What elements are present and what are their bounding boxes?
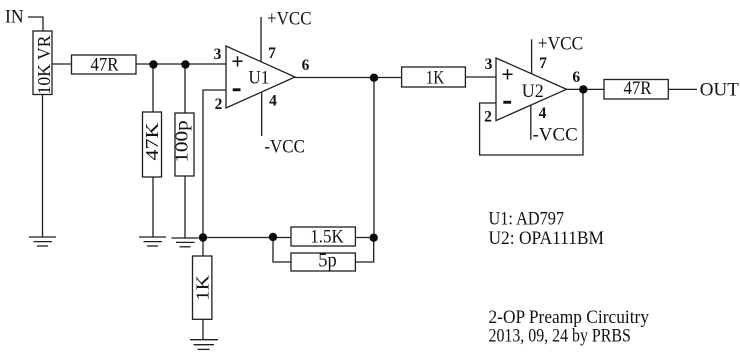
svg-text:1.5K: 1.5K	[310, 227, 344, 248]
op-amp U2 triangle	[496, 58, 567, 121]
svg-text:-VCC: -VCC	[533, 124, 578, 145]
wire IN to 10K VR	[28, 17, 43, 31]
svg-text:47K: 47K	[142, 123, 162, 161]
capacitor 5p body	[291, 253, 355, 271]
wire 47R to OUT	[668, 88, 697, 90]
node: 47K junction	[149, 60, 157, 68]
wire VR bottom to ground	[42, 95, 44, 238]
node: feedback right junction	[370, 234, 378, 242]
wire 1K shunt to ground	[202, 319, 204, 339]
ground (input)	[29, 237, 56, 246]
wire feedback node to 1.5K	[203, 237, 291, 239]
svg-text:47R: 47R	[91, 55, 119, 76]
minus marker U1	[233, 88, 241, 91]
node: shunt junction	[199, 233, 207, 241]
wire 1.5K right to node	[355, 237, 374, 239]
ground (1K shunt)	[190, 340, 218, 350]
wire -VCC U2	[530, 105, 532, 140]
wire 100p lead down	[184, 64, 186, 113]
svg-text:-VCC: -VCC	[264, 136, 305, 157]
minus marker U2	[503, 101, 511, 104]
wire 1K shunt top lead	[202, 238, 204, 257]
resistor 1K (series) body	[402, 67, 466, 87]
svg-text:U1: AD797: U1: AD797	[489, 208, 565, 229]
wire 47R to U1 pin 3	[136, 63, 226, 65]
svg-text:7: 7	[539, 55, 547, 72]
wire U2 feedback loop	[480, 89, 583, 155]
resistor 1.5K body	[291, 227, 355, 246]
svg-text:3: 3	[485, 56, 493, 73]
svg-text:4: 4	[269, 93, 277, 110]
svg-text:4: 4	[539, 105, 547, 122]
svg-text:10K VR: 10K VR	[34, 36, 54, 95]
resistor 1K (shunt) body	[193, 256, 212, 319]
wire +VCC U1	[260, 17, 262, 62]
resistor 47K body	[143, 112, 162, 177]
svg-text:OUT: OUT	[700, 80, 739, 101]
svg-text:5p: 5p	[318, 249, 337, 271]
wire U1 output down to feedback	[373, 78, 375, 238]
resistor R: 10K VR body	[33, 31, 52, 95]
svg-text:7: 7	[268, 45, 276, 62]
svg-text:100p: 100p	[172, 120, 192, 163]
wire U2 output	[567, 88, 605, 90]
resistor 47R (input) body	[72, 55, 137, 74]
wire 1K to U2 pin 3	[465, 76, 496, 78]
capacitor 100p body	[175, 113, 194, 176]
resistor 47R (output) body	[604, 80, 668, 100]
svg-text:3: 3	[214, 46, 222, 63]
svg-text:U2: U2	[522, 81, 544, 102]
svg-text:U2: OPA111BM: U2: OPA111BM	[489, 228, 605, 249]
wire 47K lead down	[152, 64, 154, 112]
svg-text:1K: 1K	[192, 275, 212, 301]
wire 100p to ground	[184, 176, 186, 238]
svg-text:+VCC: +VCC	[538, 34, 583, 55]
node: U1 output junction	[370, 74, 378, 82]
svg-text:2013, 09, 24 by PRBS: 2013, 09, 24 by PRBS	[489, 325, 631, 346]
svg-text:47R: 47R	[623, 78, 651, 99]
svg-text:+: +	[231, 49, 244, 74]
svg-text:+VCC: +VCC	[267, 9, 312, 30]
op-amp U1 triangle	[226, 46, 295, 108]
wire U1 output	[295, 77, 402, 79]
svg-text:6: 6	[572, 69, 580, 86]
wire U1 pin 2 to feedback node	[203, 90, 226, 238]
ground (47K)	[139, 237, 166, 246]
wire 5p branch right	[355, 238, 373, 263]
wire VR tap to 47R	[52, 63, 72, 65]
svg-text:1K: 1K	[426, 67, 444, 88]
ground (100p)	[172, 238, 199, 247]
wire -VCC U1	[261, 92, 263, 136]
node: U2 output junction	[579, 85, 587, 93]
wire 5p branch left	[273, 238, 291, 263]
node: feedback left junction	[269, 233, 277, 241]
wire +VCC U2	[531, 39, 533, 73]
svg-text:U1: U1	[249, 68, 270, 89]
node: 100p junction	[181, 60, 189, 68]
svg-text:+: +	[501, 62, 514, 87]
svg-text:2: 2	[484, 109, 492, 126]
svg-text:6: 6	[302, 57, 310, 74]
wire 47K to ground	[152, 177, 154, 237]
svg-text:2: 2	[215, 96, 223, 113]
svg-text:IN: IN	[5, 7, 24, 28]
